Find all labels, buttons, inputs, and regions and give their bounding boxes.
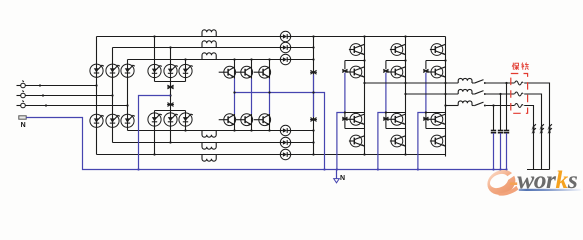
capacitor Cf1: [504, 131, 509, 133]
wire mid column 3 blue: [269, 79, 271, 115]
thyristor V16: [121, 114, 135, 127]
wire mid column 2 upper: [250, 58, 252, 78]
inductor Lo3: [458, 101, 472, 106]
wire output phase V drop: [524, 94, 541, 170]
wire group2 clamp column: [170, 82, 172, 111]
wire leg 3 lower bracket: [426, 128, 446, 130]
wire bus 3: [128, 59, 314, 61]
node group2 mid: [169, 94, 171, 96]
wire group1 leg 3: [127, 60, 129, 131]
fuse F3: [515, 104, 524, 108]
arrow output U: [547, 124, 552, 133]
diode VD6: [280, 149, 290, 159]
capacitor clamp CB1: [310, 70, 317, 74]
wire neutral from N: [26, 118, 506, 170]
fuse box (保险): [511, 74, 528, 114]
wire neutral mid link: [233, 91, 325, 170]
switch S1: [474, 80, 486, 84]
capacitor Cf2 tap: [499, 93, 501, 130]
thyristor V22: [164, 64, 178, 77]
wire leg 3 clamp blue: [417, 73, 426, 171]
logo e-works: [483, 165, 581, 199]
IGBT Q1: [349, 44, 365, 56]
wire mid column 3 upper: [268, 58, 270, 78]
wire group2 leg 3 lower: [184, 111, 186, 132]
wire group1 leg 2: [112, 48, 114, 143]
wire bus 2: [113, 47, 314, 49]
capacitor Cf1 tap: [505, 82, 507, 130]
wire mid column 1 upper: [233, 58, 235, 78]
inductor Lo1: [458, 78, 472, 83]
diode VD1: [280, 31, 290, 41]
wire group2 leg 2 lower: [169, 111, 171, 144]
thyristor V25: [164, 113, 178, 126]
diode VD5: [280, 137, 290, 147]
diode clamp D3: [383, 69, 389, 72]
thyristor V23: [179, 64, 193, 77]
svg-text:N: N: [340, 175, 345, 182]
wire leg 2 clamp blue: [377, 73, 386, 171]
wire leg 1 clamp lower column: [344, 113, 346, 129]
IGBT Q3: [345, 113, 365, 125]
wire leg 1 clamp upper bracket: [345, 59, 366, 69]
thyristor V26: [179, 113, 193, 126]
thyristor V14: [90, 114, 104, 127]
transistor VT5: [236, 114, 253, 126]
transistor VT1: [219, 66, 236, 78]
wire leg 2 clamp lower column: [385, 113, 387, 129]
IGBT Q10: [426, 66, 446, 78]
IGBT Q5: [390, 44, 406, 56]
terminal input phase 1: [17, 81, 26, 88]
wire output phase W drop: [524, 106, 533, 170]
wire group2 leg 3 upper: [184, 58, 186, 81]
wire mid column 2 blue: [251, 79, 253, 115]
wire output phase V from leg: [404, 93, 458, 95]
wire group2 leg 1 upper: [153, 35, 155, 81]
label 保险 (fuse): [512, 63, 529, 70]
IGBT Q12: [430, 135, 446, 147]
node N (neutral marker): [334, 170, 345, 183]
wire group2 leg 2 upper: [169, 46, 171, 81]
thyristor V24: [148, 113, 162, 126]
diode clamp D1: [342, 69, 348, 72]
wire leg 2 clamp upper bracket: [386, 59, 407, 69]
diode VD2: [280, 42, 290, 52]
wire inverter leg 2 vertical: [404, 35, 406, 155]
wire output phase U to fuse: [486, 82, 515, 84]
capacitor clamp CA1: [167, 85, 174, 89]
wire input phase 2: [25, 94, 113, 96]
wire clamp vertical blue: [313, 75, 315, 118]
diode clamp D5: [423, 69, 429, 72]
IGBT Q8: [390, 135, 406, 147]
transistor VT3: [254, 66, 271, 78]
inductor LB2: [202, 41, 216, 48]
wire bus 5: [113, 142, 314, 144]
capacitor clamp CB2: [310, 118, 317, 122]
inductor LB5: [202, 143, 216, 150]
inductor LB6: [202, 155, 216, 162]
wire inverter leg 1 vertical: [363, 35, 365, 155]
wire leg 2 lower bracket: [386, 128, 406, 130]
inductor LB1: [202, 30, 216, 37]
switch S2: [474, 91, 486, 95]
diode clamp D2: [342, 117, 348, 120]
wire input phase 3: [25, 104, 128, 106]
wire group2 lower bracket: [155, 110, 186, 112]
IGBT Q9: [430, 44, 446, 56]
wire output common end: [527, 169, 550, 171]
fuse F2: [515, 92, 524, 96]
wire output phase U from leg: [363, 82, 458, 84]
wire input phase 1: [25, 84, 97, 86]
wire leg 1 lower bracket: [345, 128, 365, 130]
wire leg 1 mid bracket: [344, 111, 365, 113]
wire leg 2 mid bracket: [385, 111, 406, 113]
IGBT Q7: [386, 113, 406, 125]
thyristor V11: [90, 64, 104, 77]
wire clamp vertical: [312, 35, 314, 155]
thyristor V12: [106, 64, 120, 77]
fuse F1: [515, 81, 524, 85]
wire leg 3 clamp lower column: [425, 113, 427, 129]
diode VD4: [280, 125, 290, 135]
wire output phase W mid: [472, 105, 474, 107]
wire neutral riser x138: [137, 96, 170, 171]
IGBT Q11: [426, 113, 446, 125]
IGBT Q2: [345, 66, 365, 78]
switch S3: [474, 102, 486, 106]
capacitor Cf3: [491, 131, 496, 133]
diode VD3: [280, 54, 290, 64]
wire output phase W to fuse: [486, 105, 515, 107]
terminal N input: [19, 116, 26, 129]
wire group2 leg 1 lower: [153, 111, 155, 156]
arrow output W: [531, 124, 536, 133]
inductor Lo2: [458, 89, 472, 94]
diode clamp D4: [383, 117, 389, 120]
wire mid column 3 lower: [268, 114, 270, 132]
wire output phase V to fuse: [486, 93, 515, 95]
wire inverter leg 3 vertical: [445, 37, 447, 155]
wire output phase W from leg: [444, 104, 458, 106]
svg-text:N: N: [21, 122, 26, 129]
transistor VT4: [219, 114, 236, 126]
wire capacitor Cf1 to neutral: [505, 133, 507, 171]
terminal input phase 2: [17, 91, 26, 98]
wire mid column 2 lower: [250, 114, 252, 132]
arrow output V: [539, 124, 544, 133]
transistor VT6: [254, 114, 271, 126]
wire leg 3 clamp upper bracket: [426, 59, 447, 69]
capacitor Cf2: [498, 131, 503, 133]
diode clamp D6: [423, 117, 429, 120]
wire leg 1 clamp blue: [336, 73, 345, 171]
wire leg 3 mid bracket: [425, 111, 446, 113]
inductor LB3: [202, 53, 216, 60]
thyristor V21: [148, 64, 162, 77]
IGBT Q6: [386, 66, 406, 78]
transistor VT2: [236, 66, 253, 78]
capacitor Cf3 tap: [492, 104, 494, 130]
thyristor V13: [121, 64, 135, 77]
wire mid column 1 lower: [233, 114, 235, 132]
wire capacitor Cf2 to neutral: [499, 133, 501, 171]
wire mid column 1 blue: [234, 79, 236, 115]
wire group2 upper bracket: [155, 81, 186, 83]
wire output phase U drop: [524, 83, 549, 170]
wire output phase V mid: [472, 93, 474, 95]
wire group1 leg 1: [96, 37, 98, 155]
thyristor V15: [106, 114, 120, 127]
wire bus 4: [128, 130, 314, 132]
inductor LB4: [202, 131, 216, 138]
wire capacitor Cf3 to neutral: [492, 133, 494, 171]
wire bus L1+ (top DC/phase bus 1): [97, 36, 446, 38]
wire output phase U mid: [472, 82, 474, 84]
svg-text:works: works: [517, 165, 578, 194]
capacitor clamp CA2: [167, 103, 174, 107]
wire bus L6- (bottom bus): [97, 155, 446, 157]
terminal input phase 3: [17, 101, 26, 108]
IGBT Q4: [349, 135, 365, 147]
